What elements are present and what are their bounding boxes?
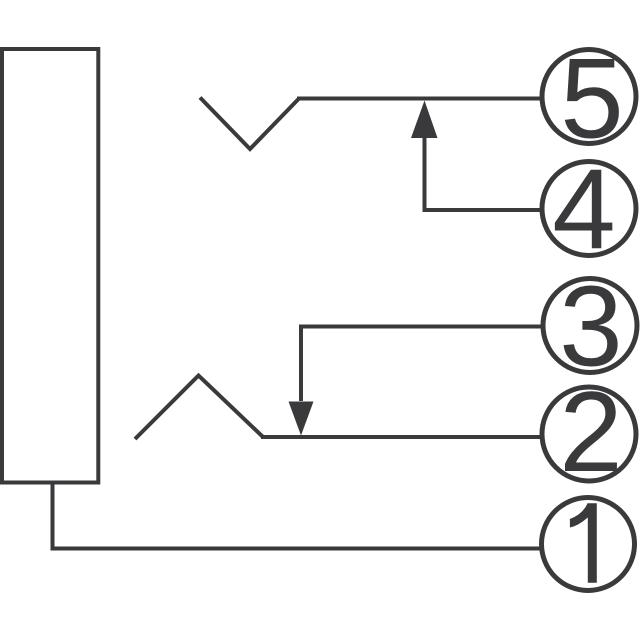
connector body (jack sleeve barrel) [2, 49, 98, 483]
tip contact peak (mountain) [135, 376, 263, 440]
terminal circle 2 [542, 387, 636, 481]
wire pin5 to terminal 5 [297, 97, 541, 101]
wire pin1 from body bottom to terminal 1 [53, 484, 542, 549]
wire pin4 to terminal 4 [423, 208, 542, 212]
wire pin2 to terminal 2 [261, 435, 541, 439]
terminal circle 3 [543, 279, 637, 373]
switch contact V (ring contact) [200, 98, 299, 150]
down arrow from pin3 wire to pin2 wire [299, 325, 303, 402]
terminal circle 4 [542, 162, 636, 256]
svg-text:4: 4 [552, 147, 615, 274]
terminal circle 1 [542, 498, 635, 591]
svg-text:2: 2 [559, 369, 622, 496]
wire pin3 to terminal 3 [301, 325, 542, 329]
up arrow from pin4 wire to pin5 wire [423, 138, 427, 212]
digit 1 (custom helvetica-style glyph) [570, 503, 597, 583]
svg-text:5: 5 [560, 36, 623, 163]
terminal circle 5 [542, 50, 636, 144]
